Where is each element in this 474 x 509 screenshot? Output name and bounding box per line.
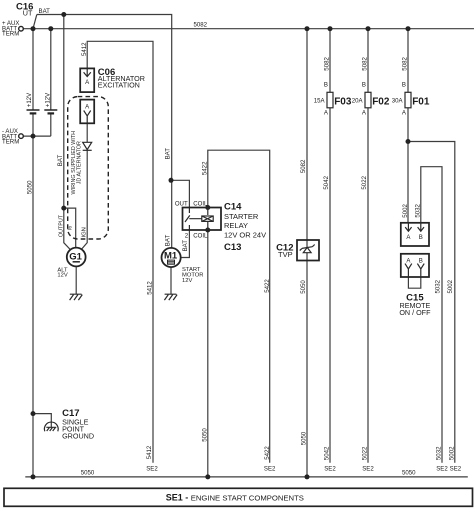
svg-text:5050: 5050: [300, 280, 307, 294]
svg-text:5422: 5422: [264, 279, 271, 293]
svg-text:UT: UT: [23, 9, 33, 18]
svg-text:BAT: BAT: [39, 8, 51, 15]
svg-text:COIL: COIL: [193, 200, 208, 207]
svg-text:JD ALTERNATOR: JD ALTERNATOR: [77, 141, 83, 184]
svg-text:12V OR 24V: 12V OR 24V: [224, 231, 266, 240]
svg-text:A: A: [406, 257, 411, 264]
svg-text:F01: F01: [412, 97, 430, 108]
svg-text:5002: 5002: [448, 446, 455, 460]
svg-text:5412: 5412: [146, 281, 153, 295]
svg-text:12V: 12V: [182, 278, 192, 284]
svg-text:5412: 5412: [81, 42, 88, 56]
svg-text:A: A: [406, 234, 411, 241]
svg-text:5050: 5050: [301, 431, 308, 445]
svg-text:SE2: SE2: [362, 466, 374, 473]
svg-text:BAT: BAT: [164, 235, 171, 247]
svg-text:EXCITATION: EXCITATION: [98, 81, 140, 90]
svg-text:A: A: [402, 110, 407, 117]
svg-text:STARTER: STARTER: [224, 212, 259, 221]
svg-text:SE2: SE2: [450, 466, 462, 473]
svg-text:5042: 5042: [323, 446, 330, 460]
svg-text:5422: 5422: [264, 446, 271, 460]
svg-text:A: A: [85, 103, 90, 110]
svg-text:2: 2: [185, 233, 189, 240]
svg-text:BAT: BAT: [164, 148, 171, 160]
svg-text:RELAY: RELAY: [224, 221, 248, 230]
svg-text:5032: 5032: [434, 279, 441, 293]
svg-text:B: B: [362, 81, 366, 88]
svg-text:5082: 5082: [300, 159, 307, 173]
svg-text:A: A: [324, 110, 329, 117]
svg-text:5082: 5082: [323, 57, 330, 71]
svg-text:TERM: TERM: [2, 30, 19, 37]
svg-text:5032: 5032: [436, 446, 443, 460]
svg-text:F02: F02: [372, 97, 390, 108]
svg-text:F03: F03: [334, 97, 352, 108]
svg-text:5082: 5082: [361, 57, 368, 71]
svg-text:5412: 5412: [146, 445, 153, 459]
svg-text:B: B: [419, 257, 423, 264]
svg-text:ON / OFF: ON / OFF: [399, 308, 431, 317]
svg-text:5022: 5022: [361, 175, 368, 189]
svg-text:C14: C14: [224, 201, 242, 212]
svg-text:B: B: [324, 81, 328, 88]
svg-text:5082: 5082: [401, 57, 408, 71]
svg-text:OUT: OUT: [175, 200, 188, 207]
svg-text:SE2: SE2: [264, 466, 276, 473]
svg-text:B: B: [419, 234, 423, 241]
svg-text:5050: 5050: [81, 470, 95, 477]
svg-text:TERM: TERM: [2, 138, 19, 145]
svg-text:SE2: SE2: [324, 466, 336, 473]
svg-text:5050: 5050: [27, 180, 34, 194]
svg-text:A: A: [362, 110, 367, 117]
svg-text:COIL: COIL: [193, 233, 208, 240]
svg-text:SE2: SE2: [146, 466, 158, 473]
svg-text:5042: 5042: [323, 175, 330, 189]
svg-text:5002: 5002: [447, 279, 454, 293]
svg-text:GROUND: GROUND: [62, 432, 94, 441]
svg-text:SE2: SE2: [436, 466, 448, 473]
svg-text:IGN: IGN: [81, 227, 87, 237]
svg-text:OUTPUT: OUTPUT: [59, 214, 65, 237]
svg-text:5422: 5422: [202, 161, 209, 175]
svg-text:+12V: +12V: [44, 92, 51, 107]
svg-text:15A: 15A: [314, 98, 326, 105]
svg-text:5002: 5002: [402, 204, 409, 218]
svg-text:SE1 - ENGINE START COMPONENTS: SE1 - ENGINE START COMPONENTS: [166, 492, 304, 502]
svg-text:C13: C13: [224, 242, 241, 253]
svg-text:20A: 20A: [352, 98, 364, 105]
svg-text:30A: 30A: [392, 98, 404, 105]
svg-text:BAT: BAT: [182, 240, 189, 252]
svg-text:BAT: BAT: [57, 155, 64, 167]
svg-text:5022: 5022: [361, 446, 368, 460]
svg-text:B: B: [402, 81, 406, 88]
svg-text:TVP: TVP: [278, 250, 293, 259]
svg-text:+12V: +12V: [26, 92, 33, 107]
svg-text:M1: M1: [164, 250, 178, 261]
svg-text:G1: G1: [69, 251, 82, 262]
svg-text:5032: 5032: [415, 204, 422, 218]
svg-text:5082: 5082: [194, 21, 208, 28]
svg-text:5050: 5050: [402, 470, 416, 477]
svg-text:12V: 12V: [57, 273, 67, 279]
svg-text:5050: 5050: [201, 428, 208, 442]
svg-text:A: A: [85, 79, 90, 86]
svg-text:I6: I6: [68, 226, 74, 230]
